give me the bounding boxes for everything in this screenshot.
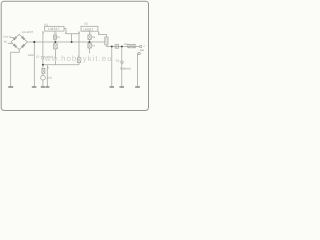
svg-text:-: - xyxy=(141,52,142,56)
resistor R4 below rail xyxy=(88,43,91,48)
diode D1 mark xyxy=(13,36,17,40)
svg-text:ww.hobbykit.eu: ww.hobbykit.eu xyxy=(44,54,113,63)
svg-text:C1: C1 xyxy=(36,55,40,58)
node out-branch1 xyxy=(111,46,113,48)
wire input stub bottom (AC) xyxy=(8,42,13,44)
wire output branch 1 xyxy=(111,47,113,88)
svg-text:IC1: IC1 xyxy=(44,24,49,27)
diode D3 mark xyxy=(13,44,17,48)
wire mid horizontal feedback xyxy=(43,64,79,66)
diode D5 inline xyxy=(115,45,119,49)
node rail-R2 xyxy=(54,41,56,43)
wire output xyxy=(106,45,139,47)
wire DC+ rail xyxy=(27,41,104,43)
wire bridge minus elbow xyxy=(11,50,20,87)
bridge rectifier diamond BR1 xyxy=(11,34,27,49)
wire C1 to LED junction xyxy=(42,59,44,69)
node C1-LED xyxy=(42,64,44,66)
node out-battery xyxy=(121,46,123,48)
svg-text:Bat: Bat xyxy=(140,49,144,52)
wire IC2 out xyxy=(99,31,107,37)
wire 560R branch xyxy=(33,42,35,87)
wire R4 tail xyxy=(88,48,90,54)
wire IC1 input drop xyxy=(42,31,44,57)
frame border xyxy=(1,1,148,110)
svg-text:1R5: 1R5 xyxy=(123,43,128,46)
terminal J1 plus xyxy=(140,45,142,47)
battery BT1 plates xyxy=(120,62,124,64)
resistor R1 adj IC1 xyxy=(54,35,57,39)
junction dots xyxy=(33,41,123,66)
resistor R2 below rail xyxy=(54,44,58,49)
node rail-out1 xyxy=(71,41,73,43)
svg-text:Battery: Battery xyxy=(120,67,131,71)
resistor R3 adj IC2 xyxy=(88,35,91,39)
wire LED to ground xyxy=(42,73,44,87)
node rail-adj2 xyxy=(88,41,90,43)
svg-text:1000uF: 1000uF xyxy=(45,56,54,59)
background xyxy=(0,0,150,112)
ground GND1 xyxy=(8,86,13,88)
wire IC2 adj xyxy=(88,31,90,43)
svg-text:C3: C3 xyxy=(116,60,120,63)
ground GND4 xyxy=(45,86,49,88)
diode D2 mark xyxy=(21,36,25,40)
ground GND5 xyxy=(110,86,115,88)
svg-text:560R: 560R xyxy=(28,54,34,57)
terminal J2 minus xyxy=(138,52,140,54)
diode D4 mark xyxy=(21,44,25,48)
capacitor C1 plates xyxy=(41,57,45,59)
node rail-560R xyxy=(33,41,35,43)
wire R8 bottom xyxy=(78,63,80,65)
ground GND6 xyxy=(119,86,124,88)
ground GND7 xyxy=(135,86,140,88)
wire input stub top (110v) xyxy=(10,37,14,39)
LED LED1 circle xyxy=(41,75,46,80)
wire minus terminal to ground xyxy=(137,54,140,88)
wire branch x47 xyxy=(46,65,48,87)
wire battery to ground xyxy=(121,64,123,87)
svg-text:AC: AC xyxy=(4,41,8,44)
ground GND3 xyxy=(41,86,45,88)
wire IC1 adj xyxy=(54,31,56,44)
svg-text:LM317: LM317 xyxy=(83,27,93,31)
resistor R7 box on LED chain xyxy=(42,68,45,73)
svg-text:LED: LED xyxy=(47,76,52,79)
svg-text:IC2: IC2 xyxy=(84,22,89,25)
svg-text:- 1N-4007: - 1N-4007 xyxy=(20,31,34,34)
wire x79 drop xyxy=(78,31,80,57)
resistor R6 inline xyxy=(128,44,135,47)
wire battery branch xyxy=(121,47,123,63)
wire R2 to feedback xyxy=(54,49,56,65)
svg-text:110v-0: 110v-0 xyxy=(3,36,11,39)
svg-text:LM317: LM317 xyxy=(48,27,60,31)
IC2 LM317 box xyxy=(81,26,98,31)
wire IC1 out xyxy=(64,29,79,42)
resistor R5 vertical xyxy=(105,37,108,45)
ground GND2 xyxy=(32,86,37,88)
resistor R8 box x76 xyxy=(77,58,81,63)
IC1 LM317 box xyxy=(45,26,64,31)
